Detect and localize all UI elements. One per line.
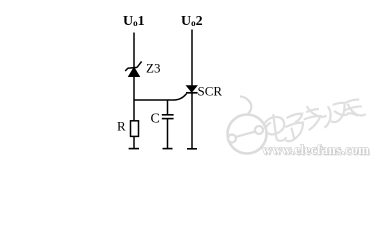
svg-text:Uo1: Uo1 xyxy=(123,14,145,29)
wire horizontal gate bus xyxy=(134,94,187,100)
wire Uo2 vertical (top of right rail) xyxy=(191,30,193,86)
watermark chinese text (decorative) xyxy=(263,99,368,143)
wire left rail middle (zener to junction) xyxy=(133,77,135,101)
zener diode Z3 xyxy=(125,61,141,76)
SCR (thyristor) xyxy=(186,86,198,93)
wire Uo1 vertical (top of left rail) xyxy=(133,33,135,68)
terminal bar middle xyxy=(163,148,173,150)
svg-text:R: R xyxy=(117,119,126,134)
junction capacitor tap / wire capacitor upper xyxy=(167,100,169,115)
capacitor C xyxy=(162,115,174,119)
svg-text:SCR: SCR xyxy=(198,84,223,99)
svg-text:www.elecfans.com: www.elecfans.com xyxy=(262,142,369,157)
wire resistor top (junction to R) xyxy=(133,100,135,121)
watermark logo ring (decorative) xyxy=(228,97,267,154)
terminal bar left xyxy=(129,148,139,150)
wire SCR cathode down xyxy=(191,93,193,149)
terminal bar right xyxy=(187,148,197,150)
wire resistor bottom xyxy=(133,136,135,148)
svg-text:C: C xyxy=(151,112,160,127)
wire capacitor lower xyxy=(167,119,169,149)
svg-text:Uo2: Uo2 xyxy=(181,14,203,29)
resistor R xyxy=(131,121,139,137)
svg-text:Z3: Z3 xyxy=(146,61,160,76)
